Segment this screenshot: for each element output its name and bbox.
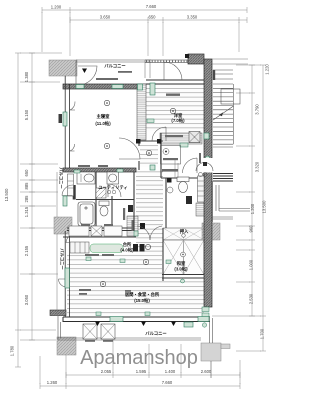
door arc side balcony — [62, 185, 73, 196]
svg-text:1.220: 1.220 — [265, 64, 270, 75]
pillar at hall top left — [136, 139, 141, 144]
svg-text:主寝室: 主寝室 — [97, 113, 111, 120]
dim right inner line — [249, 65, 255, 316]
wall porch line top-right — [145, 60, 192, 63]
triangle bottom wall 1 — [141, 322, 146, 327]
svg-text:居間・食堂・台所: 居間・食堂・台所 — [125, 291, 160, 298]
dim left inner line — [29, 53, 35, 340]
hall lower floor stripes — [136, 170, 163, 254]
symbol circle 洋室 — [170, 108, 175, 113]
wall right outer — [204, 59, 212, 307]
svg-text:650: 650 — [149, 15, 157, 20]
svg-text:(15.0帖): (15.0帖) — [134, 297, 150, 304]
door arc washroom — [108, 184, 121, 197]
svg-text:台所: 台所 — [123, 241, 132, 248]
entrance knob mark — [203, 162, 207, 166]
small circles washroom — [107, 190, 111, 194]
symbol circle hall — [146, 150, 151, 155]
wall pillar top-right — [188, 54, 204, 64]
room LDK floor stripes right — [162, 278, 204, 316]
dimension texts — [4, 4, 270, 385]
room 和室 with tatami X pattern — [163, 240, 204, 275]
wall bottom window line — [63, 317, 210, 322]
storage boxes on balcony — [83, 324, 115, 339]
small circles genkan bottom — [199, 173, 203, 177]
witness lines right — [212, 65, 261, 351]
wall washroom/hall divider — [133, 172, 135, 231]
svg-text:3.350: 3.350 — [187, 15, 198, 20]
witness lines left — [20, 53, 62, 340]
wall left outer lower — [65, 231, 69, 317]
entrance door gap in wall — [203, 158, 212, 173]
window hall small — [150, 165, 155, 170]
black triangles — [82, 69, 176, 327]
symbol circle LDK 1 — [100, 281, 105, 286]
wall hall top — [137, 140, 163, 142]
gray block left middle (PS) — [54, 217, 72, 234]
svg-text:バルコニー: バルコニー — [104, 64, 125, 69]
svg-text:7.660: 7.660 — [146, 4, 157, 9]
svg-text:3.050: 3.050 — [24, 294, 29, 305]
pillar black squares — [136, 54, 189, 229]
dim bottom row2 line — [40, 383, 240, 389]
svg-text:押入: 押入 — [180, 228, 189, 235]
wall left outer upper — [65, 76, 69, 168]
porch line dash row — [146, 60, 191, 62]
window 洋室 top-left vertical — [150, 83, 155, 95]
stairs side line — [233, 84, 235, 144]
window on closet bottom — [180, 143, 188, 147]
svg-text:285: 285 — [24, 195, 29, 203]
svg-text:(3.0帖): (3.0帖) — [174, 266, 188, 273]
genkan step lines — [175, 160, 178, 178]
svg-text:3.650: 3.650 — [100, 15, 111, 20]
wall washroom mid — [76, 199, 134, 201]
door arc kitchen side — [66, 233, 76, 242]
svg-text:バルコニー: バルコニー — [59, 167, 64, 188]
marks right of 和室 — [206, 245, 211, 250]
closet X-box right — [189, 132, 200, 143]
svg-text:1.400: 1.400 — [165, 369, 176, 374]
window arc bedroom 1 — [70, 102, 75, 111]
kitchen stove — [133, 244, 151, 252]
wall 洋室 top — [146, 80, 204, 84]
door arc LDK out-swing — [58, 279, 66, 287]
closet band top-right — [160, 133, 202, 144]
svg-text:1.700: 1.700 — [260, 328, 265, 339]
svg-text:2.055: 2.055 — [101, 369, 112, 374]
small green marks 洋室/LDK — [74, 119, 171, 316]
svg-text:13.500: 13.500 — [4, 188, 9, 201]
window left wall bedroom — [63, 112, 67, 126]
window bottom wall 1 — [110, 317, 123, 322]
window LDK left wall — [65, 268, 70, 288]
svg-text:1.780: 1.780 — [10, 345, 15, 356]
toilet 1 — [99, 201, 109, 216]
kitchen counter cabinet — [70, 242, 89, 253]
green circle below wall end — [202, 323, 206, 327]
wall hall/bedroom divider — [138, 140, 140, 170]
room LDK floor stripes left — [67, 254, 162, 316]
svg-text:3.790: 3.790 — [255, 104, 260, 115]
triangle bottom wall 2 — [171, 322, 176, 327]
hall upper floor stripes — [140, 143, 158, 167]
door arc hall-LDK french left — [137, 226, 150, 240]
door arc balcony top — [78, 66, 97, 85]
basin near toilet2 — [167, 187, 173, 193]
kitchen upper band boxes — [69, 226, 122, 236]
dim top row1 line — [42, 7, 247, 13]
svg-text:13.500: 13.500 — [262, 200, 267, 213]
window bedroom top 1 — [76, 85, 84, 89]
wall mid horizontal — [63, 168, 136, 172]
triangle balcony top door — [82, 69, 87, 74]
triangle bottom wall 3 — [95, 322, 100, 327]
window bedroom top 2 — [112, 85, 123, 89]
pillar kitchen left — [140, 223, 145, 229]
gray block top-left — [49, 60, 77, 76]
stairs wall stub top — [213, 70, 215, 80]
svg-text:(11.0帖): (11.0帖) — [95, 120, 111, 127]
window marks right wall end — [202, 307, 209, 318]
svg-text:1.380: 1.380 — [24, 71, 29, 82]
gray block bottom-left — [57, 337, 76, 355]
svg-text:和室: 和室 — [177, 260, 186, 267]
wall 玄関ホール left — [160, 133, 162, 178]
svg-text:1.315: 1.315 — [24, 206, 29, 217]
door arc hall-LDK french right — [150, 226, 162, 240]
washbasin vanity — [77, 172, 95, 184]
genkan hall cabinet box — [161, 146, 181, 165]
gray block bottom-right — [201, 343, 221, 361]
svg-text:2.600: 2.600 — [201, 369, 212, 374]
washing machine — [107, 172, 119, 184]
svg-text:1.200: 1.200 — [250, 203, 255, 214]
witness lines bottom — [40, 328, 240, 384]
dim top row2 line — [70, 17, 247, 23]
door arc bedroom — [119, 138, 140, 159]
stairs arrow mark — [219, 112, 223, 116]
linen shelf washroom left — [68, 174, 74, 196]
tiny label smudges — [78, 71, 201, 342]
wall stub bottom-left corner — [50, 310, 66, 316]
stair landing lines top — [213, 70, 233, 79]
window kitchen small — [63, 196, 67, 206]
room 洋室 floor stripes — [146, 84, 204, 131]
witness lines top — [42, 12, 239, 56]
wall 和室 left — [162, 228, 164, 281]
green circle on LDK bottom wall — [181, 279, 185, 283]
window arc bedroom 2 — [70, 144, 75, 151]
svg-text:1.000: 1.000 — [249, 259, 254, 270]
closet 物入 box mid — [127, 216, 138, 236]
dark mark outside left wall — [59, 114, 63, 123]
svg-text:Apamanshop: Apamanshop — [80, 347, 198, 369]
door arc entrance 玄関 — [164, 62, 182, 80]
balcony top rail — [76, 60, 151, 84]
balcony left side rail — [56, 172, 58, 316]
svg-text:7.660: 7.660 — [162, 380, 173, 385]
door stop mark top-right — [185, 54, 189, 58]
balcony bottom rail — [58, 316, 201, 340]
wall bath bottom — [67, 228, 134, 231]
balcony top right edge — [145, 60, 150, 78]
gray stub right of block — [221, 344, 230, 349]
svg-text:960: 960 — [249, 225, 254, 233]
wall bedroom top — [63, 84, 146, 89]
symbol circle bedroom 1 — [104, 100, 109, 105]
wall washroom inner vertical — [96, 172, 112, 228]
svg-text:バルコニー: バルコニー — [145, 331, 166, 336]
svg-text:(7.0帖): (7.0帖) — [171, 117, 185, 124]
pillar at 玄関ホール bottom left — [167, 178, 172, 183]
stairs landing box — [221, 89, 240, 104]
window bottom wall 2 — [184, 322, 193, 327]
wall bedroom closet band — [137, 84, 146, 140]
laundry pan — [96, 188, 106, 198]
gray block right mid (porch wall) — [202, 223, 220, 240]
svg-text:2.155: 2.155 — [24, 245, 29, 256]
dim right outer line — [260, 65, 266, 351]
toilet 2 — [177, 177, 189, 193]
svg-text:(4.0帖): (4.0帖) — [120, 247, 134, 254]
door pocket bar side balcony — [73, 185, 76, 200]
dim left outer line — [15, 53, 21, 367]
corridor top lines — [212, 59, 248, 64]
entrance arch door — [196, 163, 213, 172]
svg-text:5.150: 5.150 — [24, 109, 29, 120]
svg-text:2.530: 2.530 — [249, 293, 254, 304]
stairs break diagonal — [213, 106, 234, 120]
closet 物入 box toilet2 — [196, 203, 205, 216]
svg-text:650: 650 — [24, 169, 29, 177]
porch walls — [213, 147, 251, 222]
svg-text:1.595: 1.595 — [136, 369, 147, 374]
kitchen sink counter — [90, 244, 123, 253]
wall 玄関ホール bottom — [161, 177, 204, 179]
wall toilet2 left — [165, 178, 167, 228]
window bottom wall 3 — [198, 317, 209, 322]
genkan cabinet column — [198, 176, 205, 202]
washlet small marks — [128, 196, 192, 212]
wall kitchen top — [63, 236, 136, 238]
window closet band top — [138, 84, 143, 90]
symbol circle LDK 2 — [143, 259, 148, 264]
closet 押入 band above 和室 — [163, 228, 204, 240]
svg-text:1.200: 1.200 — [51, 5, 62, 10]
bathtub — [78, 202, 95, 226]
porch grating — [213, 174, 233, 182]
svg-text:バルコニー: バルコニー — [60, 248, 65, 269]
svg-text:3.320: 3.320 — [255, 161, 260, 172]
dim bottom row1 line — [66, 372, 240, 378]
stairs steps — [213, 84, 233, 144]
symbol circle bedroom 2 — [104, 143, 109, 148]
door arc 玄関ホール inner — [183, 158, 198, 173]
window right wall 玄関 side — [204, 133, 209, 139]
bottom-right block connector — [210, 318, 213, 378]
wall 和室 bottom — [162, 275, 204, 279]
svg-text:1.260: 1.260 — [47, 380, 58, 385]
svg-text:885: 885 — [24, 182, 29, 190]
door arc 洋室 — [152, 127, 166, 141]
pillar at hall top right — [157, 139, 162, 144]
meter circle right wall — [205, 156, 210, 161]
